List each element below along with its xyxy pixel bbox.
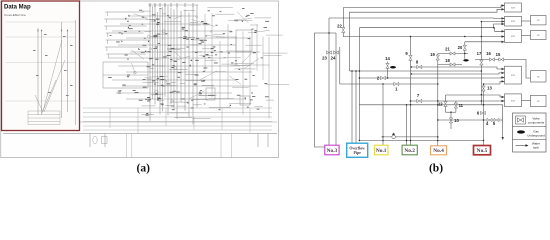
stack box R3 bbox=[531, 71, 547, 82]
valve 8 bbox=[417, 65, 422, 68]
wire B5 to R4 bbox=[522, 100, 531, 102]
label box No.4 bbox=[431, 146, 447, 155]
valve 23 bbox=[327, 51, 332, 54]
svg-text:(a): (a) bbox=[136, 163, 150, 175]
furnace box B1 bbox=[505, 3, 522, 12]
stack box R2 bbox=[531, 31, 547, 40]
svg-text:No.1: No.1 bbox=[376, 148, 387, 154]
svg-text:23: 23 bbox=[322, 56, 327, 61]
wire x339.8 bbox=[339, 47, 341, 84]
svg-text:8: 8 bbox=[416, 60, 419, 65]
svg-text:11: 11 bbox=[459, 103, 464, 108]
wire cluster h64.5 bbox=[438, 64, 462, 66]
wire h67 bbox=[411, 67, 504, 69]
valve 9 bbox=[409, 55, 412, 60]
wire h84a bbox=[340, 83, 438, 85]
overflow stems bbox=[351, 71, 353, 144]
svg-text:Cross-Effect line: Cross-Effect line bbox=[4, 13, 26, 17]
valve 18 bbox=[450, 63, 455, 66]
svg-text:(b): (b) bbox=[429, 163, 443, 175]
wire top feed 5 bbox=[481, 21, 504, 23]
svg-text:1: 1 bbox=[395, 87, 398, 92]
svg-text:14: 14 bbox=[385, 56, 390, 61]
wire h104.8 bbox=[359, 104, 502, 106]
wire x406.5 bbox=[406, 105, 408, 146]
svg-text:9: 9 bbox=[405, 51, 408, 56]
svg-text:10: 10 bbox=[454, 118, 459, 123]
data map box (red) bbox=[2, 1, 80, 131]
wire x349.4 down bbox=[348, 12, 350, 71]
gas ellipse near valve 14 bbox=[390, 66, 396, 69]
valve 16 bbox=[490, 58, 495, 61]
valve 5 bbox=[494, 118, 499, 121]
valve 14 bbox=[386, 63, 389, 68]
wire top feed 4 bbox=[359, 24, 504, 28]
valve 1 bbox=[394, 82, 399, 85]
svg-text:No.4: No.4 bbox=[433, 148, 444, 154]
svg-text:7: 7 bbox=[417, 93, 420, 98]
wire x359.4 down bbox=[358, 28, 360, 141]
wire top feed 4b bbox=[494, 28, 505, 32]
valve 15 bbox=[499, 58, 504, 61]
wire B3 to R2 bbox=[522, 35, 531, 37]
svg-text:No.3: No.3 bbox=[327, 148, 338, 154]
stack box R1 bbox=[531, 16, 547, 25]
label box Overflow Pipe bbox=[347, 143, 368, 157]
wire cluster h53.5 bbox=[438, 53, 468, 55]
no5 rail bbox=[483, 84, 485, 146]
valve 12 wire bbox=[445, 95, 447, 112]
legend valve icon bbox=[516, 116, 526, 124]
wire top feed 3 bbox=[329, 17, 505, 19]
gas ellipse under valve 20 bbox=[463, 59, 468, 61]
valve 2 bbox=[381, 76, 386, 79]
svg-text:12: 12 bbox=[438, 102, 443, 107]
legend box bbox=[513, 113, 547, 152]
svg-text:18: 18 bbox=[445, 58, 450, 63]
wire top feed 7 bbox=[465, 41, 505, 43]
valve 22 wire bbox=[342, 8, 344, 37]
valve 24 bbox=[334, 51, 339, 54]
data map inner wires bbox=[6, 20, 76, 125]
stack box R4 bbox=[531, 95, 547, 106]
svg-text:tank: tank bbox=[533, 146, 539, 150]
valve 9 wire bbox=[410, 37, 412, 146]
svg-text:19: 19 bbox=[430, 52, 435, 57]
valve 10 bbox=[449, 118, 452, 123]
valve 6 bbox=[481, 111, 486, 114]
wire h120 bbox=[438, 119, 503, 121]
wire top feed 2 bbox=[349, 9, 504, 12]
svg-text:16: 16 bbox=[486, 51, 491, 56]
valve 13 bbox=[482, 86, 485, 91]
valve 21 bbox=[450, 52, 455, 55]
svg-text:4: 4 bbox=[486, 121, 489, 126]
svg-text:6: 6 bbox=[477, 111, 480, 116]
figure (a) outer border bbox=[1, 1, 279, 158]
valve 20 wire bbox=[464, 42, 466, 59]
wire h84b bbox=[484, 81, 505, 84]
wire left rail bbox=[315, 33, 337, 147]
svg-text:No.2: No.2 bbox=[404, 148, 415, 154]
valve 22 bbox=[342, 28, 345, 33]
svg-text:24: 24 bbox=[331, 56, 336, 61]
svg-text:15: 15 bbox=[496, 52, 501, 57]
svg-text:20: 20 bbox=[458, 45, 463, 50]
valve 20 bbox=[463, 45, 466, 50]
wire h74 bbox=[411, 73, 504, 74]
wire h78 bbox=[359, 77, 504, 80]
wire h101 bbox=[411, 100, 505, 102]
valve 19 wire bbox=[437, 54, 439, 147]
wire B2 to R1 bbox=[522, 20, 531, 22]
schematic (a) wire texture bbox=[83, 3, 289, 133]
svg-text:17: 17 bbox=[477, 51, 482, 56]
svg-text:Pipe: Pipe bbox=[354, 151, 362, 155]
svg-text:Data Map: Data Map bbox=[4, 5, 31, 11]
label box No.2 bbox=[402, 145, 417, 155]
valve 17 bbox=[480, 60, 483, 65]
furnace box B2 bbox=[505, 16, 522, 26]
wire top feed 1 bbox=[343, 6, 504, 8]
valve 4 bbox=[487, 118, 492, 121]
schematic (a) bottom rail wires bbox=[3, 122, 277, 158]
label box No.3 bbox=[325, 145, 339, 155]
wire x502.7 down arrow bbox=[502, 105, 504, 139]
valve 11 bbox=[454, 103, 457, 108]
wire h71 bbox=[349, 70, 481, 72]
valve 7 bbox=[417, 99, 422, 102]
valve 10 wire bbox=[446, 111, 456, 113]
svg-text:5: 5 bbox=[493, 121, 496, 126]
valve 23 bbox=[328, 18, 330, 146]
wire h136.9 bbox=[381, 136, 438, 138]
label box No.1 bbox=[374, 145, 388, 155]
svg-text:22: 22 bbox=[337, 24, 342, 29]
wire h59.5 to R3 bbox=[475, 60, 531, 79]
pump symbol bbox=[392, 135, 396, 139]
wire h95 bbox=[446, 95, 505, 97]
svg-text:components: components bbox=[528, 121, 545, 125]
valve 19 bbox=[436, 55, 439, 60]
label box No.5 bbox=[474, 146, 491, 155]
svg-text:21: 21 bbox=[445, 47, 450, 52]
wire h140.5 bbox=[359, 140, 483, 142]
valve 14 bbox=[387, 62, 389, 79]
furnace box B4 bbox=[505, 66, 522, 84]
valve 12 bbox=[444, 102, 447, 107]
legend flow icon bbox=[516, 145, 528, 147]
valve 17 bbox=[480, 22, 482, 105]
valve 11 wire bbox=[455, 101, 457, 112]
valve 24 bbox=[335, 33, 337, 146]
svg-text:13: 13 bbox=[487, 86, 492, 91]
no1 stem bbox=[382, 84, 384, 146]
furnace box B3 bbox=[505, 30, 522, 43]
furnace box B5 bbox=[505, 94, 522, 107]
legend gas icon bbox=[517, 130, 525, 133]
wire top feed 6 bbox=[343, 36, 505, 38]
svg-text:Underground: Underground bbox=[527, 134, 545, 138]
svg-text:No.5: No.5 bbox=[477, 148, 488, 154]
